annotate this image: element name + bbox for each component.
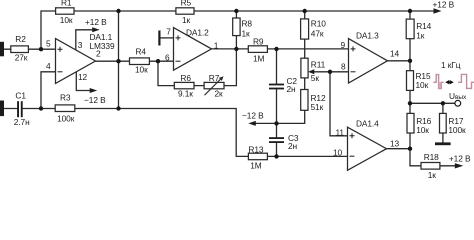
- svg-text:7: 7: [166, 27, 171, 37]
- svg-text:R13: R13: [248, 145, 263, 155]
- svg-text:−12 В: −12 В: [242, 110, 264, 120]
- svg-text:100к: 100к: [57, 113, 75, 123]
- svg-text:2к: 2к: [215, 89, 224, 99]
- svg-text:1к: 1к: [182, 15, 191, 25]
- svg-text:6: 6: [165, 52, 170, 62]
- svg-text:9.1к: 9.1к: [178, 89, 193, 99]
- svg-text:1 кГц: 1 кГц: [441, 60, 461, 70]
- svg-text:1М: 1М: [253, 54, 265, 64]
- svg-text:10к: 10к: [416, 80, 429, 90]
- svg-text:−12 В: −12 В: [84, 95, 106, 105]
- svg-text:LM339: LM339: [90, 41, 115, 51]
- svg-text:R7: R7: [209, 73, 220, 83]
- svg-text:DA1.4: DA1.4: [356, 119, 379, 129]
- svg-text:14: 14: [390, 48, 400, 58]
- svg-text:C1: C1: [15, 90, 26, 100]
- svg-text:R10: R10: [311, 19, 326, 29]
- svg-text:11: 11: [336, 127, 345, 137]
- svg-text:10к: 10к: [416, 125, 429, 135]
- svg-text:R2: R2: [15, 34, 26, 44]
- svg-text:2.7н: 2.7н: [14, 117, 30, 127]
- svg-text:1к: 1к: [428, 170, 437, 178]
- svg-text:DA1.2: DA1.2: [186, 27, 209, 37]
- svg-text:R11: R11: [311, 60, 326, 70]
- svg-text:R4: R4: [136, 47, 147, 57]
- svg-text:10к: 10к: [135, 64, 148, 74]
- svg-text:2н: 2н: [287, 84, 297, 94]
- svg-text:R5: R5: [181, 0, 192, 8]
- svg-text:10: 10: [333, 148, 343, 158]
- svg-text:R9: R9: [253, 36, 264, 46]
- svg-text:10к: 10к: [60, 15, 73, 25]
- svg-text:+12 В: +12 В: [433, 0, 455, 10]
- svg-text:2: 2: [96, 48, 101, 58]
- svg-text:2н: 2н: [288, 141, 298, 151]
- svg-text:1к: 1к: [242, 28, 251, 38]
- svg-text:9: 9: [341, 40, 346, 50]
- svg-text:1к: 1к: [416, 31, 425, 41]
- svg-text:1: 1: [214, 41, 219, 51]
- svg-text:47к: 47к: [311, 29, 324, 39]
- svg-text:8: 8: [341, 61, 346, 71]
- svg-text:R14: R14: [416, 21, 431, 31]
- svg-text:4: 4: [46, 61, 51, 71]
- svg-text:1М: 1М: [250, 161, 262, 171]
- svg-text:R1: R1: [61, 0, 72, 8]
- svg-text:R6: R6: [180, 73, 191, 83]
- svg-text:R3: R3: [60, 92, 71, 102]
- svg-text:51к: 51к: [311, 102, 324, 112]
- svg-text:R18: R18: [424, 152, 439, 162]
- svg-text:DA1.3: DA1.3: [356, 30, 379, 40]
- svg-text:13: 13: [390, 138, 400, 148]
- svg-text:+12 В: +12 В: [449, 153, 471, 163]
- svg-text:R8: R8: [242, 19, 253, 29]
- svg-text:5к: 5к: [311, 73, 320, 83]
- svg-text:5: 5: [46, 38, 51, 48]
- svg-text:3: 3: [78, 40, 83, 50]
- svg-text:12: 12: [78, 72, 88, 82]
- svg-text:+12 В: +12 В: [85, 17, 107, 27]
- svg-text:27к: 27к: [15, 53, 28, 63]
- svg-text:100к: 100к: [448, 125, 466, 135]
